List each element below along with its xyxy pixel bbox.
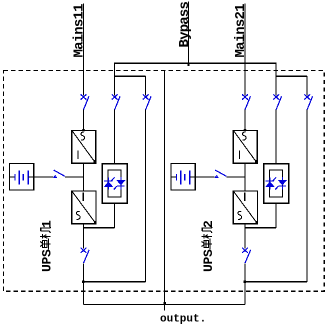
svg-text:output.: output. [160, 314, 206, 326]
svg-text:UPS: UPS [40, 249, 55, 272]
svg-text:Bypass: Bypass [177, 1, 193, 47]
svg-text:Mains11: Mains11 [72, 4, 88, 58]
svg-text:Mains21: Mains21 [233, 4, 249, 58]
svg-text:UPS: UPS [201, 249, 216, 272]
svg-text:2: 2 [201, 220, 216, 228]
svg-text:1: 1 [40, 220, 55, 228]
